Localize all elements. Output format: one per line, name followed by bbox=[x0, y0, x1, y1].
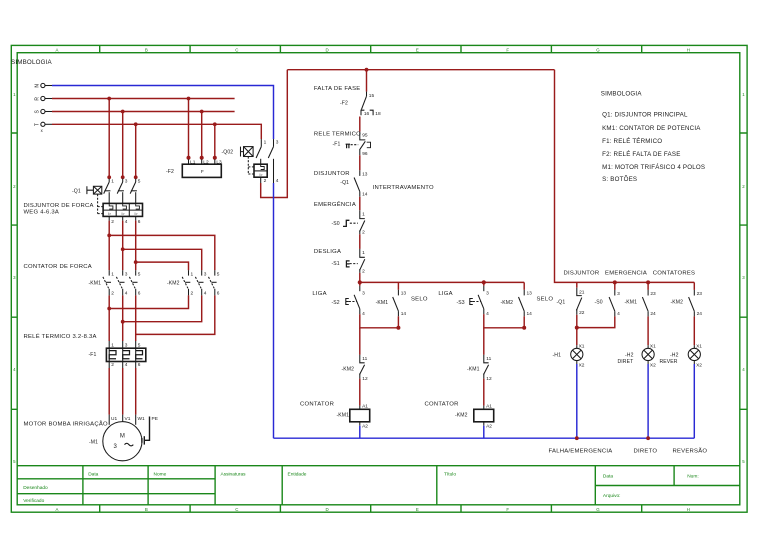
contactor coil KM1 A1-A2 bbox=[300, 401, 370, 429]
svg-text:3: 3 bbox=[204, 271, 207, 277]
svg-text:12: 12 bbox=[486, 376, 492, 382]
svg-text:A2: A2 bbox=[362, 424, 368, 430]
wire F2.16 to F1.95 bbox=[359, 117, 361, 132]
svg-text:F: F bbox=[506, 47, 509, 52]
junction crossover taps (input) bbox=[107, 234, 137, 265]
svg-text:X2: X2 bbox=[579, 362, 585, 368]
svg-text:RELÉ TERMICO 3.2-8.3A: RELÉ TERMICO 3.2-8.3A bbox=[24, 333, 97, 340]
start button S2 3-4 (liga) bbox=[312, 282, 365, 317]
junction rails to F2 drops bbox=[187, 97, 217, 127]
svg-text:WEG 4-6.3A: WEG 4-6.3A bbox=[24, 210, 60, 216]
svg-text:-F2: -F2 bbox=[340, 100, 348, 106]
wire phase rail L1 bbox=[52, 98, 235, 100]
svg-text:A1: A1 bbox=[362, 403, 368, 409]
contactor coil KM2 A1-A2 bbox=[425, 401, 494, 429]
svg-text:2: 2 bbox=[191, 291, 194, 297]
svg-text:F1: RELÉ TÉRMICO: F1: RELÉ TÉRMICO bbox=[602, 138, 662, 145]
wire drops rails to Q1 bbox=[109, 99, 136, 178]
wire interlock to coil bbox=[483, 379, 485, 406]
svg-text:I>: I> bbox=[108, 212, 111, 216]
svg-text:1: 1 bbox=[362, 211, 365, 217]
svg-text:E: E bbox=[416, 47, 419, 52]
svg-text:22: 22 bbox=[579, 310, 585, 316]
junction top rail to F2 contact bbox=[365, 68, 369, 72]
wire Q02 pin2 to control feed riser bbox=[261, 70, 288, 198]
svg-text:-F1: -F1 bbox=[333, 142, 341, 148]
svg-text:11: 11 bbox=[486, 356, 491, 362]
svg-text:13: 13 bbox=[401, 291, 407, 297]
svg-text:-KM2: -KM2 bbox=[455, 413, 468, 419]
emergency auxiliary contact S0 3-4 bbox=[595, 282, 621, 317]
svg-text:Desenhado: Desenhado bbox=[23, 485, 48, 491]
svg-text:-H2: -H2 bbox=[625, 352, 634, 358]
svg-text:R: R bbox=[35, 97, 41, 101]
svg-text:2: 2 bbox=[111, 362, 114, 368]
svg-text:-Q02: -Q02 bbox=[222, 150, 234, 156]
svg-text:-H1: -H1 bbox=[553, 352, 562, 358]
svg-text:-S0: -S0 bbox=[332, 221, 340, 227]
svg-text:-S3: -S3 bbox=[457, 300, 465, 306]
wire lamp section feed riser bbox=[555, 70, 695, 283]
svg-text:16: 16 bbox=[364, 111, 370, 117]
junction crossover joins (output) bbox=[107, 307, 124, 324]
svg-text:18: 18 bbox=[375, 111, 381, 117]
svg-text:-S2: -S2 bbox=[332, 300, 340, 306]
seal contact KM1 13-14 (selo) bbox=[376, 282, 428, 327]
svg-text:-KM1: -KM1 bbox=[376, 300, 389, 306]
svg-text:KM1: CONTATOR DE POTENCIA: KM1: CONTATOR DE POTENCIA bbox=[602, 125, 701, 132]
wire control top rail bbox=[287, 69, 554, 71]
svg-text:X2: X2 bbox=[696, 362, 702, 368]
svg-text:2: 2 bbox=[362, 230, 365, 236]
junction bus H2 bbox=[646, 436, 650, 440]
wire Q1.14 to S0 bbox=[359, 197, 361, 210]
seal contact KM2 13-14 (selo) bbox=[501, 282, 554, 327]
svg-text:24: 24 bbox=[650, 311, 656, 317]
wire lamp H2 direto to neutral bus bbox=[647, 364, 649, 438]
svg-text:SIMBOLOGIA: SIMBOLOGIA bbox=[601, 91, 643, 98]
svg-text:14: 14 bbox=[401, 311, 407, 317]
svg-text:DIRET: DIRET bbox=[618, 359, 634, 365]
thermal relay NC contact F1 95-96 bbox=[314, 131, 371, 157]
phase-failure changeover contact F2 15-16-18 bbox=[314, 86, 381, 117]
wire S0.4 to H1 node bbox=[577, 316, 615, 327]
title block bbox=[17, 466, 740, 505]
wire coil KM2 to neutral bus bbox=[483, 426, 485, 439]
junction rails to Q1 drops bbox=[107, 97, 137, 127]
svg-text:2: 2 bbox=[111, 291, 114, 297]
svg-text:RELE TERMICO: RELE TERMICO bbox=[314, 131, 361, 137]
terminal L3 bbox=[35, 122, 53, 133]
svg-text:96: 96 bbox=[362, 151, 368, 157]
svg-text:23: 23 bbox=[650, 291, 656, 297]
svg-text:3: 3 bbox=[125, 271, 128, 277]
svg-text:21: 21 bbox=[579, 289, 585, 295]
wire KM1 outputs down to F1 bbox=[109, 295, 136, 341]
wire S1.2 to branch node bbox=[359, 273, 361, 283]
svg-text:13: 13 bbox=[362, 172, 368, 178]
svg-text:DISJUNTOR: DISJUNTOR bbox=[314, 171, 350, 177]
svg-text:2: 2 bbox=[264, 178, 267, 184]
contactor KM2 (power poles) bbox=[167, 270, 220, 297]
svg-text:4: 4 bbox=[362, 311, 365, 317]
svg-text:1: 1 bbox=[111, 179, 114, 185]
svg-text:Verificado: Verificado bbox=[23, 498, 44, 504]
svg-text:SELO: SELO bbox=[411, 296, 428, 302]
svg-text:Nome: Nome bbox=[154, 472, 167, 478]
breaker auxiliary contact Q1 13-14 (intertravamento) bbox=[314, 170, 434, 197]
terminal L2 bbox=[35, 109, 53, 113]
svg-text:Arquivo:: Arquivo: bbox=[603, 493, 621, 499]
svg-text:B: B bbox=[145, 507, 148, 512]
svg-text:Assinaturas: Assinaturas bbox=[221, 472, 247, 478]
svg-text:G: G bbox=[596, 47, 600, 52]
svg-text:D: D bbox=[326, 47, 329, 52]
svg-text:DESLIGA: DESLIGA bbox=[314, 249, 341, 255]
svg-text:3: 3 bbox=[486, 291, 489, 297]
svg-text:EMERGÊNCIA: EMERGÊNCIA bbox=[314, 200, 356, 208]
auxiliary contact KM2 23-24 bbox=[671, 282, 703, 317]
svg-text:6: 6 bbox=[217, 291, 220, 297]
svg-text:INTERTRAVAMENTO: INTERTRAVAMENTO bbox=[373, 185, 434, 191]
wire KM2.24 to lamp H2 reversao bbox=[693, 316, 695, 345]
svg-text:Q1: DISJUNTOR PRINCIPAL: Q1: DISJUNTOR PRINCIPAL bbox=[602, 112, 688, 119]
wire seal join bbox=[360, 314, 399, 328]
interlock contact KM2 11-12 bbox=[342, 355, 368, 382]
junction lamp rail S0 tap bbox=[613, 280, 617, 284]
svg-text:SIMBOLOGIA: SIMBOLOGIA bbox=[11, 59, 53, 66]
svg-text:4: 4 bbox=[125, 362, 128, 368]
wire lamp H1 to neutral bus bbox=[576, 364, 578, 438]
svg-text:I>: I> bbox=[260, 173, 263, 177]
junction branch rail to S3 bbox=[482, 280, 486, 284]
svg-text:1: 1 bbox=[111, 271, 114, 277]
legend SIMBOLOGIA bbox=[601, 91, 705, 184]
svg-text:3: 3 bbox=[125, 179, 128, 185]
svg-text:W1: W1 bbox=[138, 416, 146, 422]
svg-text:4: 4 bbox=[486, 311, 489, 317]
wire seal join bbox=[484, 314, 524, 328]
svg-text:Data: Data bbox=[603, 474, 613, 480]
svg-text:3: 3 bbox=[276, 140, 279, 146]
svg-text:1: 1 bbox=[362, 250, 365, 256]
svg-text:5: 5 bbox=[138, 271, 141, 277]
junction lamp rail KM1 tap bbox=[646, 280, 650, 284]
wire S0.2 to S1.1 bbox=[359, 234, 361, 249]
svg-text:24: 24 bbox=[697, 311, 703, 317]
phase-failure relay F2 (power block) bbox=[166, 156, 222, 178]
motor M1 (3~ bomba) bbox=[89, 415, 145, 461]
junction seal join bbox=[522, 326, 526, 330]
svg-text:E: E bbox=[416, 507, 419, 512]
svg-text:DISJUNTOR DE FORCA: DISJUNTOR DE FORCA bbox=[24, 203, 94, 209]
auxiliary contact KM1 23-24 bbox=[625, 282, 657, 317]
svg-text:6: 6 bbox=[138, 219, 141, 225]
svg-text:A: A bbox=[56, 507, 59, 512]
svg-text:1: 1 bbox=[264, 140, 267, 146]
svg-text:-Q1: -Q1 bbox=[72, 188, 81, 194]
svg-text:-KM1: -KM1 bbox=[337, 413, 350, 419]
svg-text:H: H bbox=[687, 47, 690, 52]
svg-text:LIGA: LIGA bbox=[438, 291, 452, 297]
svg-text:-KM1: -KM1 bbox=[467, 366, 480, 372]
wire feed to F2 contact bbox=[366, 70, 368, 92]
svg-text:-S0: -S0 bbox=[595, 299, 603, 305]
circuit breaker Q02 (2-pole control) bbox=[222, 139, 279, 184]
wire Q1 outputs down to contactors bbox=[109, 221, 136, 271]
wire control branch rail bbox=[360, 281, 524, 283]
junction bus H1 bbox=[575, 436, 579, 440]
svg-text:Data: Data bbox=[88, 472, 98, 478]
svg-text:11: 11 bbox=[362, 356, 367, 362]
svg-text:4: 4 bbox=[125, 219, 128, 225]
wire F1 outputs to motor bbox=[109, 368, 136, 415]
svg-text:13: 13 bbox=[527, 291, 533, 297]
circuit breaker Q1 (disjuntor de forca) bbox=[72, 175, 143, 224]
svg-text:PE: PE bbox=[152, 416, 158, 422]
svg-text:4: 4 bbox=[617, 311, 620, 317]
svg-text:SELO: SELO bbox=[537, 296, 554, 302]
start button S3 3-4 (liga) bbox=[438, 282, 489, 317]
svg-text:3: 3 bbox=[362, 291, 365, 297]
svg-text:-KM1: -KM1 bbox=[89, 281, 102, 287]
wire interlock to coil bbox=[359, 379, 361, 406]
wire down to interlock bbox=[483, 328, 485, 355]
svg-text:-KM2: -KM2 bbox=[501, 300, 514, 306]
svg-text:6: 6 bbox=[138, 291, 141, 297]
contactor KM1 (power poles) bbox=[89, 270, 141, 297]
svg-text:S: BOTÕES: S: BOTÕES bbox=[602, 176, 637, 183]
svg-text:-F2: -F2 bbox=[166, 169, 174, 175]
svg-text:5: 5 bbox=[217, 271, 220, 277]
breaker auxiliary contact Q1 21-22 bbox=[557, 282, 585, 316]
svg-text:-KM1: -KM1 bbox=[625, 299, 638, 305]
svg-text:5: 5 bbox=[138, 179, 141, 185]
wire phase crossover to KM2 inputs bbox=[109, 235, 215, 270]
svg-text:X2: X2 bbox=[650, 362, 656, 368]
svg-text:-Q1: -Q1 bbox=[340, 180, 349, 186]
svg-text:D: D bbox=[326, 507, 329, 512]
svg-text:14: 14 bbox=[527, 311, 533, 317]
svg-text:B: B bbox=[145, 47, 148, 52]
label Q1 description bbox=[24, 203, 94, 216]
svg-text:A: A bbox=[56, 47, 59, 52]
svg-text:A2: A2 bbox=[486, 424, 492, 430]
svg-text:C: C bbox=[235, 507, 238, 512]
wire H1 node to lamp bbox=[576, 328, 578, 346]
svg-text:MOTOR BOMBA IRRIGAÇÃO: MOTOR BOMBA IRRIGAÇÃO bbox=[24, 420, 109, 427]
svg-text:G: G bbox=[596, 507, 600, 512]
svg-text:T: T bbox=[35, 123, 41, 126]
svg-text:F2: RELÉ FALTA DE FASE: F2: RELÉ FALTA DE FASE bbox=[602, 151, 680, 158]
svg-text:Entidade: Entidade bbox=[288, 472, 307, 478]
wire neutral below Q02 bbox=[273, 183, 275, 438]
svg-text:4: 4 bbox=[125, 291, 128, 297]
wire neutral bottom bus bbox=[274, 437, 695, 439]
svg-text:A1: A1 bbox=[486, 403, 492, 409]
svg-text:DISJUNTOR EMERGENCIA CONTA: DISJUNTOR EMERGENCIA CONTATORES bbox=[564, 271, 696, 277]
junction control branch node bbox=[358, 280, 362, 284]
svg-text:-F1: -F1 bbox=[89, 352, 97, 358]
svg-text:-Q1: -Q1 bbox=[557, 299, 566, 305]
indicator lamp H2 reversao bbox=[660, 344, 703, 369]
thermal overload relay F1 bbox=[89, 341, 146, 368]
svg-text:2: 2 bbox=[111, 219, 114, 225]
wire coil KM1 to neutral bus bbox=[359, 426, 361, 439]
svg-text:C: C bbox=[235, 47, 238, 52]
wire F1.96 to Q1.13 bbox=[359, 155, 361, 170]
svg-text:N: N bbox=[35, 84, 41, 88]
svg-text:FALHA/EMERGENCIA: FALHA/EMERGENCIA bbox=[549, 448, 613, 454]
svg-text:15: 15 bbox=[369, 93, 375, 99]
svg-text:Num:: Num: bbox=[687, 474, 698, 480]
svg-text:-S1: -S1 bbox=[332, 261, 340, 267]
svg-text:M: M bbox=[120, 434, 125, 440]
svg-text:14: 14 bbox=[362, 192, 368, 198]
terminal N bbox=[35, 83, 53, 87]
stop button S1 1-2 (desliga) bbox=[314, 249, 365, 275]
svg-text:CONTATOR: CONTATOR bbox=[300, 401, 334, 407]
emergency stop button S0 1-2 bbox=[314, 200, 365, 236]
svg-text:LIGA: LIGA bbox=[312, 291, 326, 297]
wire neutral rail bbox=[52, 86, 274, 140]
svg-text:V1: V1 bbox=[125, 416, 131, 422]
svg-text:4: 4 bbox=[276, 178, 279, 184]
svg-text:4: 4 bbox=[204, 291, 207, 297]
wire down to interlock bbox=[359, 328, 361, 355]
svg-text:-H2: -H2 bbox=[670, 352, 679, 358]
svg-text:H: H bbox=[687, 507, 690, 512]
svg-text:M1: MOTOR TRIFÁSICO 4 POLOS: M1: MOTOR TRIFÁSICO 4 POLOS bbox=[602, 164, 705, 171]
wire phase rail L2 bbox=[52, 111, 235, 113]
wire lamp H2 reversao to neutral bus bbox=[693, 364, 695, 438]
svg-text:CONTATOR DE FORCA: CONTATOR DE FORCA bbox=[24, 264, 92, 270]
wire phase rail L3 bbox=[52, 124, 261, 139]
svg-text:3: 3 bbox=[617, 291, 620, 297]
svg-text:U1: U1 bbox=[111, 416, 117, 422]
svg-text:I>: I> bbox=[134, 212, 137, 216]
indicator lamp H2 direto bbox=[618, 344, 657, 369]
svg-text:REVER: REVER bbox=[660, 359, 678, 365]
svg-text:REVERSÃO: REVERSÃO bbox=[673, 447, 708, 454]
terminal L1 bbox=[35, 96, 53, 100]
svg-text:-KM2: -KM2 bbox=[167, 281, 180, 287]
svg-text:Título: Título bbox=[444, 472, 456, 478]
svg-text:CONTATOR: CONTATOR bbox=[425, 401, 459, 407]
svg-text:FALTA DE FASE: FALTA DE FASE bbox=[314, 86, 361, 92]
junction H1 node bbox=[575, 326, 579, 330]
svg-text:-KM2: -KM2 bbox=[342, 366, 355, 372]
wire KM2 outputs crossover join bbox=[109, 295, 215, 334]
wire drops rails to F2 bbox=[189, 99, 215, 157]
wire Q1.22 to H1 node bbox=[576, 315, 578, 328]
svg-text:-KM2: -KM2 bbox=[671, 299, 684, 305]
conductor PE with ground to motor frame bbox=[142, 416, 158, 445]
interlock contact KM1 11-12 bbox=[467, 355, 492, 382]
svg-text:12: 12 bbox=[362, 376, 368, 382]
svg-text:95: 95 bbox=[362, 133, 368, 139]
svg-text:I>: I> bbox=[121, 212, 124, 216]
svg-text:1: 1 bbox=[191, 271, 194, 277]
svg-text:-M1: -M1 bbox=[89, 439, 98, 445]
svg-text:F: F bbox=[506, 507, 509, 512]
svg-text:2: 2 bbox=[362, 268, 365, 274]
svg-text:F: F bbox=[201, 169, 204, 175]
svg-text:23: 23 bbox=[697, 291, 703, 297]
svg-text:DIRETO: DIRETO bbox=[634, 448, 658, 454]
indicator lamp H1 (falha/emergencia) bbox=[553, 344, 585, 369]
svg-text:6: 6 bbox=[138, 362, 141, 368]
junction seal join bbox=[396, 326, 400, 330]
wire KM1.24 to lamp H2 direto bbox=[647, 316, 649, 345]
